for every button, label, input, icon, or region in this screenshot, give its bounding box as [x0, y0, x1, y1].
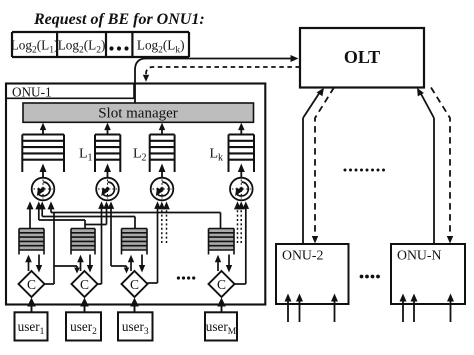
svg-text:C: C	[130, 277, 139, 292]
svg-text:Request of BE for ONU1:: Request of BE for ONU1:	[33, 11, 205, 28]
svg-text:ONU-N: ONU-N	[397, 248, 441, 263]
svg-text:Slot manager: Slot manager	[98, 106, 178, 122]
svg-text:ONU-2: ONU-2	[282, 248, 323, 263]
svg-text:ONU-1: ONU-1	[12, 85, 52, 100]
svg-text:C: C	[27, 277, 36, 292]
svg-text:C: C	[80, 277, 89, 292]
svg-text:C: C	[217, 277, 226, 292]
svg-text:OLT: OLT	[344, 47, 380, 67]
